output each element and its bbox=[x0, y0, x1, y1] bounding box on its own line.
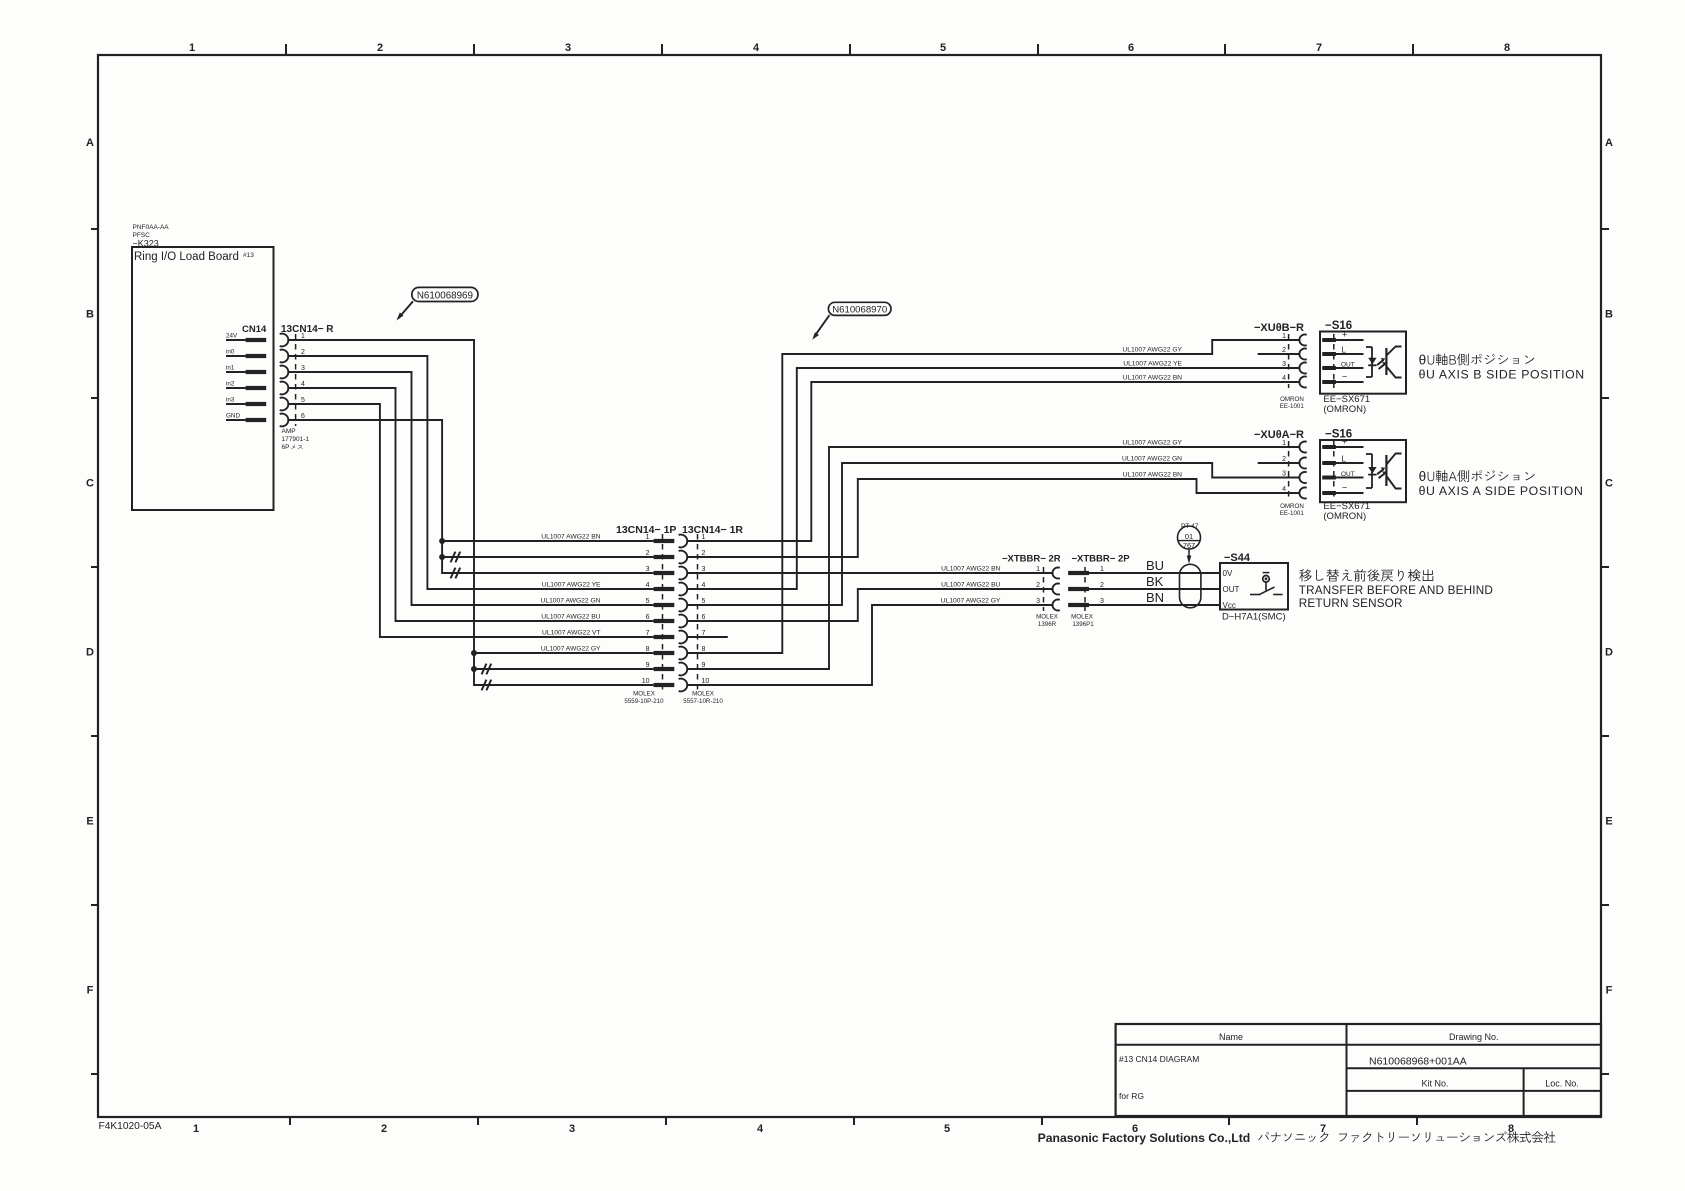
svg-text:L: L bbox=[1342, 346, 1347, 355]
svg-text:UL1007 AWG22 BU: UL1007 AWG22 BU bbox=[541, 614, 600, 621]
svg-text:in3: in3 bbox=[226, 397, 235, 404]
wire in2: 13CN14-R pin4 to 13CN14-1P pin6 (BU) bbox=[288, 388, 653, 621]
svg-text:MOLEX: MOLEX bbox=[1071, 614, 1093, 621]
svg-text:MOLEX: MOLEX bbox=[1036, 614, 1058, 621]
callout balloon N610068969 bbox=[397, 287, 479, 320]
svg-text:UL1007 AWG22 GY: UL1007 AWG22 GY bbox=[1122, 347, 1182, 354]
wire BU: -XTBBR-2P pin1 to S44 0V bbox=[1089, 572, 1220, 574]
connector -XU0A-R bbox=[1254, 429, 1307, 517]
svg-text:7: 7 bbox=[702, 630, 706, 637]
svg-text:B: B bbox=[86, 309, 94, 321]
connector -XTBBR-2P bbox=[1068, 554, 1130, 629]
svg-text:θU AXIS B SIDE POSITION: θU AXIS B SIDE POSITION bbox=[1419, 368, 1585, 382]
svg-text:2: 2 bbox=[301, 349, 305, 356]
svg-text:4: 4 bbox=[1282, 486, 1286, 493]
svg-text:6: 6 bbox=[1128, 42, 1134, 54]
svg-text:Name: Name bbox=[1219, 1032, 1243, 1042]
svg-text:3: 3 bbox=[646, 566, 650, 573]
wire in0: 13CN14-R pin2 to 13CN14-1P pin4 (YE) bbox=[288, 356, 653, 589]
svg-text:2: 2 bbox=[646, 550, 650, 557]
svg-text:RETURN SENSOR: RETURN SENSOR bbox=[1299, 597, 1403, 610]
svg-text:C: C bbox=[1605, 478, 1613, 490]
svg-text:UL1007 AWG22 YE: UL1007 AWG22 YE bbox=[542, 582, 601, 589]
sensor S44 auto-switch D-H7A1 bbox=[1220, 552, 1288, 610]
svg-text:#13 CN14 DIAGRAM: #13 CN14 DIAGRAM bbox=[1119, 1054, 1199, 1064]
cable sleeve marker PT-47 bbox=[1178, 523, 1201, 564]
svg-text:UL1007 AWG22 GY: UL1007 AWG22 GY bbox=[1122, 440, 1182, 447]
svg-text:Ring I/O Load Board: Ring I/O Load Board bbox=[134, 251, 239, 263]
wire YE: 13CN14-1R pin4 to -XU0B-R pin3 bbox=[687, 368, 1299, 589]
svg-text:UL1007 AWG22 YE: UL1007 AWG22 YE bbox=[1123, 361, 1182, 368]
note theta-U axis A side position bbox=[1419, 469, 1584, 498]
svg-text:Kit No.: Kit No. bbox=[1421, 1079, 1448, 1089]
svg-text:UL1007 AWG22 GN: UL1007 AWG22 GN bbox=[1122, 456, 1182, 463]
connector CN14 (board plug contacts) bbox=[226, 324, 267, 422]
wire in1: 13CN14-R pin3 to 13CN14-1P pin5 (GN) bbox=[288, 372, 653, 605]
svg-text:6: 6 bbox=[702, 614, 706, 621]
svg-text:1: 1 bbox=[1036, 566, 1040, 573]
svg-text:UL1007 AWG22 GY: UL1007 AWG22 GY bbox=[941, 598, 1001, 605]
wire stub -XU0B-R pin2 bbox=[1258, 353, 1300, 355]
svg-text:9: 9 bbox=[646, 662, 650, 669]
svg-text:4: 4 bbox=[757, 1123, 764, 1135]
svg-text:EE-1001: EE-1001 bbox=[1280, 510, 1305, 517]
svg-text:Drawing No.: Drawing No. bbox=[1449, 1032, 1499, 1042]
svg-text:4: 4 bbox=[301, 381, 305, 388]
svg-text:B: B bbox=[1605, 309, 1613, 321]
svg-text:UL1007 AWG22 BN: UL1007 AWG22 BN bbox=[1123, 375, 1182, 382]
svg-text:2: 2 bbox=[1282, 347, 1286, 354]
svg-text:MOLEX: MOLEX bbox=[692, 691, 714, 698]
svg-text:2: 2 bbox=[377, 42, 383, 54]
svg-text:BU: BU bbox=[1146, 558, 1164, 573]
svg-text:UL1007 AWG22 GY: UL1007 AWG22 GY bbox=[541, 646, 601, 653]
svg-text:in1: in1 bbox=[226, 365, 235, 372]
company name Panasonic Factory Solutions bbox=[1038, 1131, 1556, 1145]
svg-text:7: 7 bbox=[1320, 1123, 1326, 1135]
svg-text:CN14: CN14 bbox=[242, 324, 267, 335]
svg-text:E: E bbox=[1605, 816, 1612, 828]
svg-text:in0: in0 bbox=[226, 349, 235, 356]
svg-text:N610068970: N610068970 bbox=[832, 305, 887, 316]
svg-text:UL1007 AWG22 BN: UL1007 AWG22 BN bbox=[941, 566, 1000, 573]
svg-text:A: A bbox=[1605, 137, 1613, 149]
svg-text:3: 3 bbox=[301, 365, 305, 372]
svg-text:2: 2 bbox=[1100, 582, 1104, 589]
svg-text:F4K1020-05A: F4K1020-05A bbox=[99, 1121, 162, 1132]
svg-text:D: D bbox=[86, 647, 94, 659]
callout balloon N610068970 bbox=[812, 302, 891, 339]
sensor S16 photo-interrupter (A side) EE-SX671 bbox=[1320, 429, 1406, 523]
svg-text:UL1007 AWG22 BU: UL1007 AWG22 BU bbox=[941, 582, 1000, 589]
connector -XTBBR-2R bbox=[1002, 554, 1061, 629]
wire BN: 13CN14-1R pin1 to -XU0B-R pin4 bbox=[687, 382, 1299, 541]
svg-text:6P: 6P bbox=[282, 444, 290, 451]
svg-text:177901-1: 177901-1 bbox=[282, 436, 310, 443]
wire color labels BU BK BN bbox=[1146, 558, 1164, 605]
svg-text:6: 6 bbox=[301, 413, 305, 420]
svg-text:N610068969: N610068969 bbox=[417, 290, 473, 301]
svg-text:OMRON: OMRON bbox=[1280, 396, 1304, 403]
svg-text:N610068968+001AA: N610068968+001AA bbox=[1369, 1056, 1467, 1068]
svg-text:6: 6 bbox=[646, 614, 650, 621]
note transfer before/behind return sensor bbox=[1299, 569, 1493, 610]
wire GND net: 13CN14-R pin6 to 13CN14-1P pins 1,2,3 bbox=[288, 420, 653, 578]
svg-text:(OMRON): (OMRON) bbox=[1323, 404, 1366, 415]
svg-text:3: 3 bbox=[1282, 361, 1286, 368]
svg-text:767: 767 bbox=[1183, 541, 1195, 550]
svg-text:(OMRON): (OMRON) bbox=[1323, 511, 1366, 522]
svg-text:4: 4 bbox=[646, 582, 650, 589]
svg-text:UL1007 AWG22 BN: UL1007 AWG22 BN bbox=[541, 534, 600, 541]
svg-text:C: C bbox=[86, 478, 94, 490]
svg-text:GND: GND bbox=[226, 413, 240, 420]
svg-text:3: 3 bbox=[1100, 598, 1104, 605]
svg-text:UL1007 AWG22 GN: UL1007 AWG22 GN bbox=[541, 598, 601, 605]
svg-text:−XUθB−R: −XUθB−R bbox=[1254, 322, 1304, 334]
svg-text:for RG: for RG bbox=[1119, 1091, 1144, 1101]
svg-text:EE-1001: EE-1001 bbox=[1280, 403, 1305, 410]
svg-text:UL1007 AWG22 VT: UL1007 AWG22 VT bbox=[542, 630, 600, 637]
svg-text:13CN14− 1R: 13CN14− 1R bbox=[682, 524, 743, 536]
svg-text:8: 8 bbox=[702, 646, 706, 653]
svg-text:L: L bbox=[1342, 455, 1347, 464]
svg-text:5559-10P-210: 5559-10P-210 bbox=[624, 698, 664, 705]
svg-text:2: 2 bbox=[1036, 582, 1040, 589]
sensor S16 photo-interrupter (B side) EE-SX671 bbox=[1320, 320, 1406, 415]
svg-text:8: 8 bbox=[646, 646, 650, 653]
wire value labels UL1007 AWG22 (sensor side) bbox=[941, 347, 1183, 605]
svg-text:−S16: −S16 bbox=[1325, 429, 1352, 441]
svg-text:F: F bbox=[87, 985, 94, 997]
svg-text:Loc. No.: Loc. No. bbox=[1545, 1079, 1579, 1089]
svg-text:1: 1 bbox=[189, 42, 195, 54]
svg-text:MOLEX: MOLEX bbox=[633, 691, 655, 698]
svg-text:−: − bbox=[1342, 372, 1347, 382]
wire stub -XU0A-R pin2 bbox=[1258, 462, 1300, 464]
svg-text:0V: 0V bbox=[1223, 569, 1233, 578]
svg-text:1396P1: 1396P1 bbox=[1072, 621, 1094, 628]
connector 13CN14-R bbox=[280, 324, 335, 443]
svg-text:D−H7A1(SMC): D−H7A1(SMC) bbox=[1222, 612, 1286, 623]
svg-text:5: 5 bbox=[646, 598, 650, 605]
svg-text:OUT: OUT bbox=[1341, 362, 1355, 369]
svg-text:PNF0AA-AA: PNF0AA-AA bbox=[133, 224, 170, 231]
svg-text:24V: 24V bbox=[226, 333, 238, 340]
svg-text:−: − bbox=[1342, 483, 1347, 493]
svg-text:3: 3 bbox=[1282, 471, 1286, 478]
wire BU: 13CN14-1R pin6 to -XTBBR-2R pin2 bbox=[687, 589, 1052, 621]
svg-text:3: 3 bbox=[702, 566, 706, 573]
svg-text:2: 2 bbox=[1282, 456, 1286, 463]
connector 13CN14-1P bbox=[616, 524, 676, 705]
svg-text:−S16: −S16 bbox=[1325, 320, 1352, 332]
svg-text:BK: BK bbox=[1146, 574, 1164, 589]
svg-text:1396R: 1396R bbox=[1038, 621, 1057, 628]
svg-text:3: 3 bbox=[1036, 598, 1040, 605]
connector 13CN14-1R bbox=[679, 524, 744, 705]
svg-text:5: 5 bbox=[301, 397, 305, 404]
svg-text:9: 9 bbox=[702, 662, 706, 669]
svg-text:+: + bbox=[1342, 330, 1347, 340]
wire stub 13CN14-1R pin7 bbox=[687, 636, 728, 638]
svg-text:1: 1 bbox=[1100, 566, 1104, 573]
svg-text:5557-10R-210: 5557-10R-210 bbox=[683, 698, 723, 705]
wire BN: 13CN14-1R pin2 to -XU0A-R pin4 bbox=[687, 479, 1299, 557]
svg-text:3: 3 bbox=[565, 42, 571, 54]
svg-text:1: 1 bbox=[193, 1123, 199, 1135]
svg-text:1: 1 bbox=[1282, 333, 1286, 340]
wire GY: 13CN14-1R pin10 to -XTBBR-2R pin3 bbox=[687, 605, 1052, 685]
wire BN: 13CN14-1R pin3 to -XTBBR-2R pin1 bbox=[687, 572, 1052, 574]
svg-text:8: 8 bbox=[1504, 42, 1510, 54]
svg-text:13CN14− R: 13CN14− R bbox=[281, 324, 334, 335]
cable bundle (oval) bbox=[1180, 564, 1201, 608]
svg-text:θ: θ bbox=[1419, 353, 1427, 368]
wire BN: -XTBBR-2P pin3 to S44 Vcc bbox=[1089, 604, 1220, 606]
svg-text:4: 4 bbox=[753, 42, 760, 54]
wire in3: 13CN14-R pin5 to 13CN14-1P pin7 (VT) bbox=[288, 404, 653, 637]
svg-text:2: 2 bbox=[381, 1123, 387, 1135]
svg-text:1: 1 bbox=[702, 534, 706, 541]
svg-text:10: 10 bbox=[642, 678, 650, 685]
svg-text:#13: #13 bbox=[243, 252, 254, 259]
svg-text:θU AXIS A SIDE POSITION: θU AXIS A SIDE POSITION bbox=[1419, 484, 1584, 498]
svg-text:−XTBBR− 2P: −XTBBR− 2P bbox=[1072, 554, 1131, 565]
wire 24V net: 13CN14-R pin1 to 13CN14-1P pins 8,9,10 bbox=[288, 340, 653, 690]
svg-text:−XUθA−R: −XUθA−R bbox=[1254, 429, 1304, 441]
svg-text:AMP: AMP bbox=[282, 428, 296, 435]
svg-text:in2: in2 bbox=[226, 381, 235, 388]
svg-text:E: E bbox=[86, 816, 93, 828]
svg-text:2: 2 bbox=[702, 550, 706, 557]
svg-text:1: 1 bbox=[1282, 440, 1286, 447]
svg-text:OUT: OUT bbox=[1341, 471, 1355, 478]
svg-text:OMRON: OMRON bbox=[1280, 503, 1304, 510]
note theta-U axis B side position bbox=[1419, 353, 1585, 382]
svg-text:01: 01 bbox=[1185, 532, 1193, 541]
svg-text:Vcc: Vcc bbox=[1223, 601, 1236, 610]
svg-text:A: A bbox=[86, 137, 94, 149]
svg-text:7: 7 bbox=[1316, 42, 1322, 54]
wire value labels UL1007 AWG22 (1P side) bbox=[541, 534, 601, 653]
wire GY: 13CN14-1R pin9 to -XU0A-R pin1 bbox=[687, 447, 1299, 669]
svg-text:3: 3 bbox=[569, 1123, 575, 1135]
svg-text:BN: BN bbox=[1146, 590, 1164, 605]
connector -XU0B-R bbox=[1254, 322, 1307, 410]
wire GY: 13CN14-1R pin8 to -XU0B-R pin1 bbox=[687, 340, 1299, 653]
svg-text:−XTBBR− 2R: −XTBBR− 2R bbox=[1002, 554, 1061, 565]
svg-text:θ: θ bbox=[1419, 469, 1427, 484]
svg-text:D: D bbox=[1605, 647, 1613, 659]
svg-text:5: 5 bbox=[944, 1123, 950, 1135]
wire BK: -XTBBR-2P pin2 to S44 OUT bbox=[1089, 588, 1220, 590]
svg-text:10: 10 bbox=[702, 678, 710, 685]
svg-text:4: 4 bbox=[702, 582, 706, 589]
svg-text:−K323: −K323 bbox=[133, 239, 159, 249]
svg-text:TRANSFER BEFORE AND BEHIND: TRANSFER BEFORE AND BEHIND bbox=[1299, 584, 1493, 597]
title block bbox=[1116, 1024, 1601, 1116]
svg-text:OUT: OUT bbox=[1223, 585, 1240, 594]
svg-text:7: 7 bbox=[646, 630, 650, 637]
svg-text:5: 5 bbox=[702, 598, 706, 605]
svg-text:1: 1 bbox=[646, 534, 650, 541]
svg-text:1: 1 bbox=[301, 333, 305, 340]
svg-text:UL1007 AWG22 BN: UL1007 AWG22 BN bbox=[1123, 472, 1182, 479]
wire GN: 13CN14-1R pin5 to -XU0A-R pin3 bbox=[687, 463, 1299, 605]
svg-text:Panasonic Factory Solutions: Panasonic Factory Solutions Co.,Ltd bbox=[1038, 1131, 1251, 1145]
svg-text:4: 4 bbox=[1282, 375, 1286, 382]
svg-text:5: 5 bbox=[940, 42, 946, 54]
board K323 Ring I/O Load Board bbox=[132, 224, 274, 510]
svg-text:+: + bbox=[1342, 437, 1347, 447]
svg-text:−S44: −S44 bbox=[1224, 552, 1251, 564]
svg-text:F: F bbox=[1606, 985, 1613, 997]
